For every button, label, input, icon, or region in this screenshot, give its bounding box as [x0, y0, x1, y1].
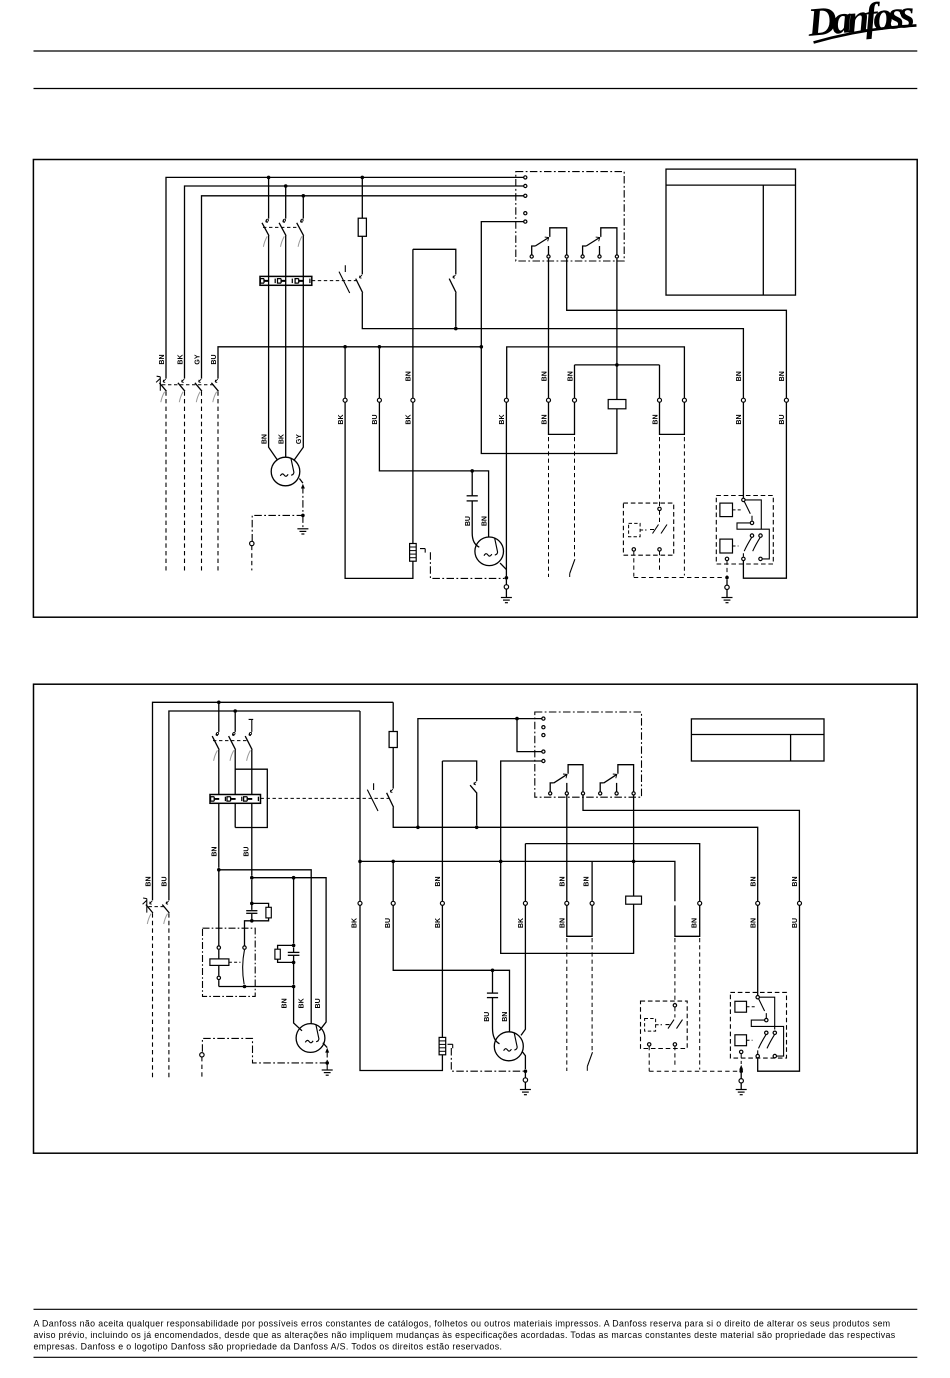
start device box outline box2 [203, 928, 256, 996]
junction bus-col345 [343, 345, 347, 349]
label BN below col743 [736, 414, 743, 424]
label BU below col799 [792, 918, 799, 928]
overload trip linkage box1 [312, 280, 358, 282]
junction H2 box2 [250, 876, 254, 880]
label BU below col786 [779, 414, 786, 424]
disconnector Q1 handle box1 [156, 376, 160, 391]
M1 exit wire box2 [323, 1043, 327, 1048]
disconnector handle box2 [143, 898, 147, 913]
junction L3-pole3 [302, 194, 306, 198]
label BU motor2 lead [465, 516, 472, 526]
label BN below col757 [750, 918, 757, 928]
terminal col684 box1 [682, 398, 686, 402]
wire earth bus box2 [521, 844, 700, 1036]
label BU motor3 lead [484, 1012, 491, 1022]
label BN above col548 [541, 371, 548, 381]
junction earth-dashdot box1 [505, 576, 509, 580]
svg-text:GY: GY [296, 434, 303, 444]
start switch wire box2 [245, 921, 252, 946]
label BK below col360 [352, 918, 359, 928]
header rule 2 [34, 88, 918, 90]
label BK below col525 [518, 918, 525, 928]
junction bus-col379 [378, 345, 382, 349]
contactor contacts box2 [212, 732, 252, 760]
contactor pole2 wire box2 [234, 711, 236, 828]
footer rule bottom [34, 1356, 918, 1358]
sensor linkage dashdot box2 [451, 1048, 523, 1071]
pressure switch terminal top box2 [673, 1004, 676, 1007]
terminal col786 box1 [784, 398, 788, 402]
control unit input terminals box1 [524, 176, 527, 223]
junction cap2 top box2 [292, 944, 296, 948]
control relay contact 2 box2 [599, 765, 636, 795]
svg-text:BN: BN [282, 998, 289, 1008]
ground symbol M1 box2 [322, 1063, 333, 1075]
svg-text:BU: BU [792, 918, 799, 928]
wire term6 to coil box2 [633, 795, 635, 896]
motor M2 exit to earth box1 [500, 563, 506, 570]
contactor K1 contacts box1 [262, 219, 304, 247]
wire relay bottom to col799 box2 [758, 905, 800, 1071]
wire L2 (BK) box1 [185, 186, 526, 379]
linkage pair 566/592 box2 [567, 938, 592, 1071]
aux contact box2 [470, 782, 477, 794]
header rule 1 [34, 50, 918, 52]
run capacitor wire box2 [493, 970, 500, 1044]
start relay box outline box1 [716, 496, 773, 565]
start relay term bl box1 [725, 557, 728, 560]
start relay terminal top box1 [742, 498, 745, 501]
start relay term bl box2 [740, 1050, 743, 1053]
start relay blade3 box2 [767, 1035, 774, 1049]
junction cap box1 [470, 469, 474, 473]
start relay top link box1 [745, 500, 761, 529]
relay PE terminal box2 [739, 1073, 743, 1090]
start relay blade1 box1 [744, 502, 752, 521]
label BN above col757 [750, 876, 757, 886]
terminal col799 box2 [798, 901, 802, 905]
junction N-pole2 box2 [233, 709, 237, 713]
junction L2-pole2 [284, 184, 288, 188]
junction relay PE box1 [725, 576, 729, 580]
svg-text:BN: BN [541, 371, 548, 381]
contactor linkage box2 [213, 740, 248, 742]
start relay term m2 box2 [765, 1031, 768, 1034]
start relay term m1 box2 [765, 1018, 768, 1021]
start relay blade3 box1 [753, 538, 760, 552]
label BK below col413 [406, 414, 413, 424]
svg-text:BK: BK [338, 414, 345, 424]
linkage pair 674/699 box2 [675, 938, 700, 1070]
label BN motor3 lead [502, 1012, 509, 1022]
linkage blade box1 [570, 559, 575, 577]
label BN motor2 lead [481, 516, 488, 526]
wire term3 to col799 box2 [583, 796, 799, 902]
pressure switch stubs box1 [634, 511, 660, 577]
PTC sensor box2 [439, 1037, 446, 1054]
ground symbol M1 box1 [297, 529, 308, 534]
fuse box2 [389, 732, 397, 748]
svg-text:BN: BN [406, 371, 413, 381]
contactor K1 pole1 wire [269, 177, 278, 460]
linkage pair 548/574 box1 [549, 437, 575, 577]
svg-text:BN: BN [559, 876, 566, 886]
M1 PE ground stub box1 [302, 515, 304, 528]
junction coil tap box1 [615, 363, 619, 367]
ground symbol M2 box2 [520, 1090, 531, 1095]
wire U loop right box2 [675, 905, 700, 936]
label BN above col786 [779, 371, 786, 381]
footer rule top [34, 1308, 918, 1310]
label BN below col659 [652, 414, 659, 424]
wire col379 to motor2 box1 [379, 349, 488, 538]
M1 PE arrow box2 [325, 1048, 329, 1053]
M2 PE terminal box2 [523, 1073, 527, 1090]
start relay term b1 box2 [756, 1054, 759, 1057]
pressure switch stubs box2 [649, 1007, 675, 1071]
aux loop box2 [442, 761, 476, 825]
terminal col592 box2 [590, 901, 594, 905]
svg-text:BU: BU [315, 998, 322, 1008]
label BN above col799 [792, 876, 799, 886]
pressure switch box outline box2 [641, 1001, 688, 1048]
disconnector Q1 linkage box1 [162, 384, 215, 386]
contactor pole1 wire box2 [218, 702, 220, 868]
label BU line4 box1 [211, 354, 218, 364]
pressure switch terminal bl box2 [648, 1043, 651, 1046]
svg-text:BN: BN [159, 354, 166, 364]
svg-text:BN: BN [541, 414, 548, 424]
overload relay F1 box1 [260, 276, 312, 285]
start relay sq1 link box1 [733, 509, 742, 511]
wire fuse column box1 [362, 177, 743, 398]
wire term2 column box1 [549, 259, 575, 435]
start relay coil box2 [210, 959, 229, 966]
junction M1 PE box2 [325, 1061, 329, 1065]
svg-text:BK: BK [435, 918, 442, 928]
label BN below col548 [541, 414, 548, 424]
label BK motor2 lead [299, 998, 306, 1008]
junction L1-fuse [361, 176, 365, 180]
svg-text:BN: BN [736, 414, 743, 424]
start relay term m2 box1 [750, 534, 753, 537]
svg-text:BU: BU [372, 414, 379, 424]
terminal col757 box2 [756, 901, 760, 905]
junction ctrl branch box2 [515, 717, 519, 721]
start relay sq2 link box2 [747, 1039, 753, 1041]
control unit box outline box2 [535, 712, 642, 797]
label BN line1 box2 [145, 876, 152, 886]
start relay term m3 box2 [773, 1031, 776, 1034]
svg-text:BN: BN [584, 876, 591, 886]
start relay blade1 box2 [759, 999, 767, 1018]
start relay wiring box2 [751, 1020, 783, 1056]
bleed resistor box2 [275, 949, 280, 959]
start relay terminal top box2 [756, 996, 759, 999]
relay coil box2 [626, 896, 642, 904]
junction relay PE box2 [739, 1069, 743, 1073]
terminal col393 box2 [391, 901, 395, 905]
overload trip symbol box2 [367, 783, 378, 811]
footer text [34, 1319, 896, 1352]
disconnector Q1 contacts box1 [159, 379, 218, 402]
pilot loop top box1 [575, 364, 660, 366]
wire to control box top box2 [418, 719, 544, 828]
svg-text:BU: BU [385, 918, 392, 928]
label BK motor1 lead [279, 434, 286, 444]
capacitor C1 box1 [467, 496, 478, 501]
terminal col548 box1 [547, 398, 551, 402]
junction coil tap box2 [632, 860, 636, 864]
start relay blade2 box1 [743, 538, 751, 557]
wire loop right leg box1 [507, 347, 685, 435]
label BU below col393 [385, 918, 392, 928]
label GY line3 box1 [194, 354, 201, 364]
wire col293 box2 [294, 878, 302, 1031]
coil terminal bottom box2 [217, 976, 220, 979]
junction M1 PE box1 [301, 514, 305, 518]
terminal col659 box1 [658, 398, 662, 402]
wire L1 (BN) box1 [166, 177, 525, 378]
wire H2 box2 [252, 878, 326, 1031]
wire H1 to motor2 BK box2 [219, 870, 311, 1024]
M1 PE terminal box1 [250, 541, 254, 545]
aux contact loop box1 [413, 249, 456, 326]
ground symbol relay box2 [736, 1090, 747, 1095]
junction H3-col293 box2 [292, 985, 296, 989]
label BN above col442 [435, 876, 442, 886]
junction fusebus-ctrlwire box2 [416, 826, 420, 830]
label BU motor2 lead [315, 998, 322, 1008]
pressure switch terminal br box1 [658, 548, 661, 551]
contactor K1 pole3 wire [294, 196, 303, 460]
terminal col566 box2 [565, 901, 569, 905]
relay coil K1 box1 [608, 400, 626, 409]
start relay term b2 box2 [773, 1054, 776, 1057]
svg-text:BU: BU [162, 876, 169, 886]
overload trip symbol box1 [339, 265, 350, 293]
svg-text:BN: BN [559, 918, 566, 928]
fuse F2 box1 [358, 218, 366, 236]
dashed link to relay box1 [634, 577, 725, 579]
wire term2 column box2 [567, 796, 592, 937]
wire L (BN) box2 [153, 702, 394, 900]
junction bus end at control wire [480, 345, 484, 349]
label BN above col743 [736, 371, 743, 381]
overload bypass loop box2 [235, 769, 267, 827]
motor M1 box1 [271, 457, 300, 486]
start relay term m1 box1 [750, 521, 753, 524]
pressure switch contacts box2 [666, 1020, 683, 1029]
motor M2 box1 [475, 537, 504, 566]
junction cap box2 [491, 969, 495, 973]
junction H3-switch box2 [243, 985, 247, 989]
terminal col360 box2 [358, 901, 362, 905]
aux contact K1 box1 [449, 275, 456, 293]
junction cap1 top box2 [250, 902, 254, 906]
svg-text:GY: GY [194, 354, 201, 364]
junction bus2 tee box2 [358, 860, 362, 864]
disconnector contacts box2 [146, 901, 169, 924]
svg-text:BU: BU [779, 414, 786, 424]
svg-text:BN: BN [211, 847, 218, 857]
wires below disconnector box2 [153, 913, 169, 1080]
wire pole1 coil box2 [218, 870, 220, 987]
start switch blade box2 [243, 950, 245, 985]
junction H1 box2 [217, 868, 221, 872]
start cap plates box2 [246, 911, 257, 914]
start relay term m3 box1 [759, 534, 762, 537]
label BK below col506 [499, 414, 506, 424]
start relay sq1 link box2 [747, 1006, 756, 1008]
terminal col699 box2 [698, 901, 702, 905]
start relay square1 box1 [720, 503, 733, 516]
start relay top link box2 [760, 997, 775, 1029]
terminal col743 box1 [741, 398, 745, 402]
relay PE terminal box1 [725, 579, 729, 597]
label BN below col566 [559, 918, 566, 928]
start relay earth dash box1 [726, 561, 728, 576]
wire col786 to relay bottom box1 [743, 402, 786, 578]
contact on fuse column box1 [356, 275, 363, 293]
control unit input terminals box2 [542, 717, 545, 763]
contactor K1 linkage box1 [263, 226, 299, 228]
label BN above col592 [584, 876, 591, 886]
dashed link to relay box2 [649, 1070, 739, 1072]
ctrl branch wire box2 [517, 719, 543, 752]
wire sensor column box1 [345, 249, 413, 578]
wire control to coil box1 [481, 222, 617, 454]
wire term5-coil return box2 [501, 761, 634, 953]
svg-text:BN: BN [792, 876, 799, 886]
svg-text:BN: BN [481, 516, 488, 526]
svg-text:BK: BK [352, 918, 359, 928]
sensor tick box2 [448, 1044, 453, 1048]
M1 PE terminal box2 [200, 1053, 204, 1057]
terminal col379 box1 [377, 398, 381, 402]
M2 exit wire box2 [522, 1051, 525, 1069]
control relay contact 1 box2 [549, 765, 585, 795]
disconnector linkage box2 [149, 906, 166, 908]
wire capacitor branch box1 [472, 471, 479, 547]
svg-text:BN: BN [691, 918, 698, 928]
svg-text:BN: BN [779, 371, 786, 381]
earth terminal circle box1 [504, 580, 508, 598]
terminal col525 box2 [523, 901, 527, 905]
overload trip linkage box2 [261, 797, 390, 799]
svg-text:BN: BN [435, 876, 442, 886]
pressure switch terminal bl box1 [632, 548, 635, 551]
label BN motor1 lead [261, 434, 268, 444]
M1 PE arrow box1 [301, 484, 305, 489]
start relay blade2 box2 [758, 1035, 766, 1054]
label BU below col379 [372, 414, 379, 424]
svg-text:BK: BK [406, 414, 413, 424]
wire term3 to col786 box1 [567, 259, 787, 399]
svg-text:BK: BK [518, 918, 525, 928]
motor M2 box2 [494, 1032, 523, 1061]
bleed cap plates box2 [288, 952, 300, 955]
linkage blade box2 [587, 1052, 592, 1071]
label BK below col345 [338, 414, 345, 424]
Danfoss logo [805, 0, 918, 45]
wire term6 to coil box1 [616, 259, 618, 400]
sensor tick box1 [420, 549, 425, 553]
svg-text:BK: BK [177, 354, 184, 364]
wire L3 (GY) box1 [202, 196, 526, 379]
M1 PE dashdot box2 [202, 1038, 327, 1063]
wire col393 to motor3 box2 [393, 861, 509, 1032]
svg-text:BN: BN [750, 876, 757, 886]
start switch linkage box2 [229, 961, 241, 963]
start relay box outline box2 [730, 992, 786, 1058]
start cap combo box2 [252, 880, 269, 921]
label BK line2 box1 [177, 354, 184, 364]
junction term5 at bus box2 [499, 860, 503, 864]
svg-text:BU: BU [244, 847, 251, 857]
sensor linkage dashdot box1 [430, 552, 504, 578]
M1 PE wire box1 [252, 479, 303, 542]
wire fuse column box2 [393, 702, 758, 995]
terminal col413 box1 [411, 398, 415, 402]
start cap resistor box2 [266, 907, 271, 918]
diagram 2 border [34, 684, 918, 1153]
wire N (BU) box2 [169, 711, 360, 900]
PTC sensor R1 box1 [410, 544, 417, 562]
label BN above H1 box2 [211, 847, 218, 857]
wire N (BU) bus box1 [218, 347, 481, 379]
start relay PE arrow box2 [739, 1065, 743, 1070]
linkage pair 659/684 box1 [660, 437, 685, 576]
start relay sq2 link box1 [733, 545, 739, 547]
pressure switch inner box1 [629, 523, 647, 536]
diagram 1 border [33, 160, 917, 618]
pressure switch terminal br box2 [673, 1043, 676, 1046]
start relay wiring box1 [737, 523, 769, 559]
label BU line2 box2 [162, 876, 169, 886]
svg-text:BN: BN [736, 371, 743, 381]
label BN line1 box1 [159, 354, 166, 364]
overload relay box2 [210, 795, 261, 804]
coil terminal top box2 [217, 946, 220, 949]
start relay PE dash box2 [740, 1054, 742, 1064]
svg-text:BU: BU [465, 516, 472, 526]
svg-text:BN: BN [567, 371, 574, 381]
svg-text:BN: BN [750, 918, 757, 928]
label BN below col699 [691, 918, 698, 928]
junction aux-bus box1 [454, 327, 458, 331]
start relay term b2 box1 [759, 557, 762, 560]
M1 PE dashed tail box1 [251, 546, 253, 571]
label BU above H2 box2 [244, 847, 251, 857]
junction H2-col293 box2 [292, 876, 296, 880]
svg-text:BN: BN [502, 1012, 509, 1022]
M1 PE dashed tail box2 [201, 1057, 203, 1079]
wires below disconnector (dashed) box1 [166, 391, 218, 570]
bleed resistor combo box2 [278, 945, 294, 962]
pressure switch inner box2 [645, 1019, 662, 1032]
start relay term b1 box1 [742, 557, 745, 560]
pressure switch terminal top box1 [658, 507, 661, 510]
terminal col506 box1 [504, 398, 508, 402]
svg-text:BN: BN [261, 434, 268, 444]
junction cap1 bottom box2 [250, 919, 254, 923]
ground symbol motor2 box1 [501, 598, 512, 603]
start relay square1 box2 [735, 1001, 747, 1012]
svg-text:BU: BU [484, 1012, 491, 1022]
control relay contact 2 box1 [581, 228, 619, 258]
run capacitor box2 [487, 993, 498, 998]
